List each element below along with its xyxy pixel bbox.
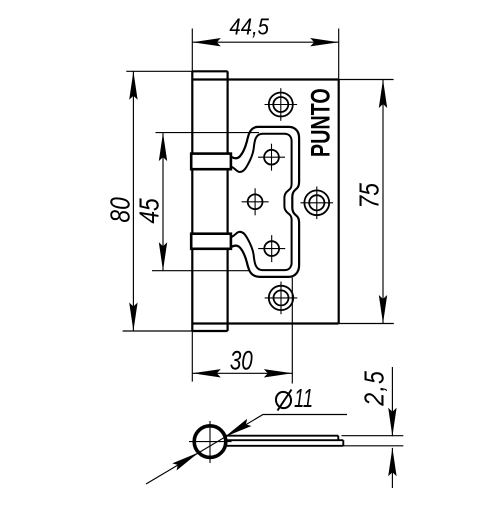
svg-text:45: 45 xyxy=(135,197,165,223)
svg-text:80: 80 xyxy=(105,197,135,222)
svg-text:30: 30 xyxy=(230,346,254,376)
svg-text:44,5: 44,5 xyxy=(229,13,269,40)
svg-text:11: 11 xyxy=(294,384,313,413)
svg-text:PUNTO: PUNTO xyxy=(307,88,337,157)
svg-text:75: 75 xyxy=(354,182,384,208)
svg-text:2,5: 2,5 xyxy=(359,370,389,407)
